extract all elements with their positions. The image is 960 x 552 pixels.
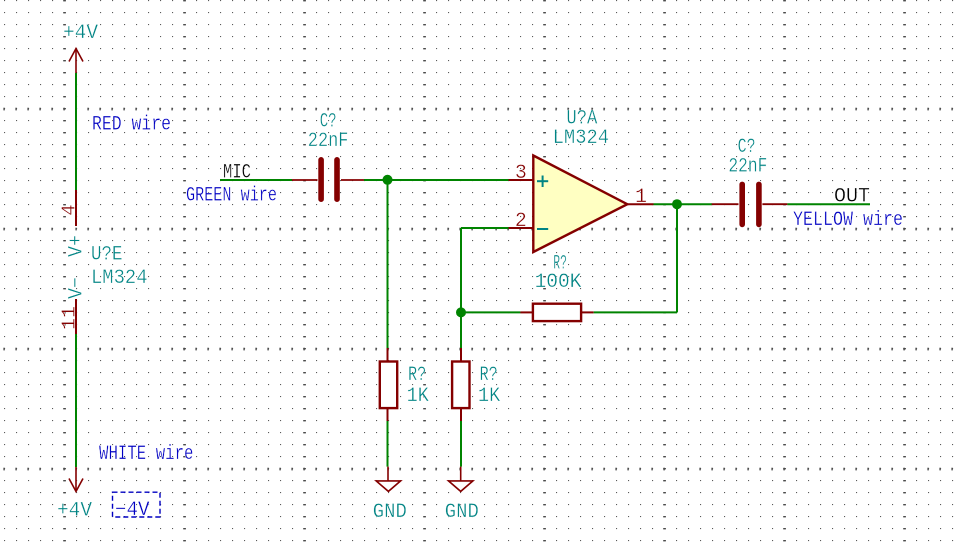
resistor R3 pin 1 <box>520 311 532 313</box>
wire feedback up <box>676 204 678 312</box>
pin name + <box>537 176 548 188</box>
junction C <box>672 199 682 209</box>
wire R2 to ground <box>460 421 462 467</box>
wire down to junction B <box>460 228 462 348</box>
capacitor C2 pin 1 <box>712 203 739 205</box>
junction B <box>456 307 466 317</box>
resistor R2 pin 2 <box>460 409 462 421</box>
capacitor C2 pin 2 <box>762 203 787 205</box>
svg-text:+4V: +4V <box>57 500 92 523</box>
resistor R3 pin 2 <box>582 311 594 313</box>
svg-text:3: 3 <box>515 162 527 185</box>
capacitor C1 pin 2 <box>341 179 364 181</box>
svg-text:YELLOW wire: YELLOW wire <box>793 209 903 232</box>
svg-text:4: 4 <box>58 204 80 215</box>
wire C2 to OUT <box>787 203 870 205</box>
svg-text:GREEN wire: GREEN wire <box>186 185 277 208</box>
svg-text:WHITE wire: WHITE wire <box>99 443 194 466</box>
resistor R1 body (1K) <box>380 362 397 409</box>
op-amp pin 3 stub <box>509 179 534 181</box>
capacitor C1 pin 1 <box>292 179 318 181</box>
resistor R3 body (100K) <box>533 304 581 321</box>
wire op-amp output <box>654 203 713 205</box>
op-amp U?E power unit pin 4 (V+) <box>75 190 77 226</box>
svg-text:22nF: 22nF <box>728 156 767 179</box>
svg-text:11: 11 <box>59 306 81 330</box>
wire junction A down to R1 <box>387 180 389 348</box>
wire WHITE vertical <box>75 334 77 467</box>
resistor R1 pin 2 <box>387 409 389 421</box>
svg-text:100K: 100K <box>535 271 582 294</box>
svg-text:V+: V+ <box>66 235 89 257</box>
wire MIC to C1 <box>220 179 292 181</box>
op-amp U?A body <box>533 156 627 253</box>
svg-text:LM324: LM324 <box>553 127 610 150</box>
resistor R2 pin 1 <box>460 348 462 361</box>
wire op-amp pin 2 left <box>461 227 509 229</box>
svg-text:22nF: 22nF <box>308 130 349 153</box>
op-amp pin 2 stub <box>509 227 534 229</box>
resistor R1 pin 1 <box>387 348 389 361</box>
power symbol +4V bottom <box>69 467 83 492</box>
svg-text:OUT: OUT <box>834 186 870 209</box>
svg-text:R?: R? <box>480 364 498 387</box>
op-amp pin 1 stub <box>627 203 653 205</box>
wire junction B to R3 <box>461 311 520 313</box>
wire R1 to ground <box>387 421 389 467</box>
wire R3 to output <box>594 311 677 313</box>
svg-text:MIC: MIC <box>223 162 251 185</box>
svg-text:LM324: LM324 <box>91 267 148 290</box>
svg-text:RED wire: RED wire <box>92 114 171 137</box>
pin name - <box>537 228 548 230</box>
ground symbol 2 <box>449 467 473 492</box>
svg-text:+4V: +4V <box>63 22 98 45</box>
svg-text:1: 1 <box>635 186 647 209</box>
svg-text:GND: GND <box>373 501 407 524</box>
svg-text:2: 2 <box>515 210 527 233</box>
dashed box <box>113 492 161 517</box>
svg-text:V−: V− <box>66 277 89 299</box>
capacitor C2 plates <box>742 184 759 224</box>
op-amp U?E power unit pin 11 (V-) <box>75 299 77 334</box>
svg-text:GND: GND <box>445 501 479 524</box>
svg-text:U?E: U?E <box>91 244 123 267</box>
wire C1 to op-amp pin 3 <box>364 179 509 181</box>
resistor R2 body (1K) <box>452 362 469 409</box>
junction A <box>383 175 393 185</box>
power symbol +4V top <box>69 49 83 74</box>
capacitor C1 plates <box>321 160 337 199</box>
svg-text:−4V: −4V <box>115 499 150 522</box>
svg-text:1K: 1K <box>478 385 500 408</box>
svg-text:R?: R? <box>408 364 426 387</box>
svg-text:1K: 1K <box>407 385 429 408</box>
wire RED vertical <box>75 73 77 190</box>
ground symbol 1 <box>376 467 400 492</box>
